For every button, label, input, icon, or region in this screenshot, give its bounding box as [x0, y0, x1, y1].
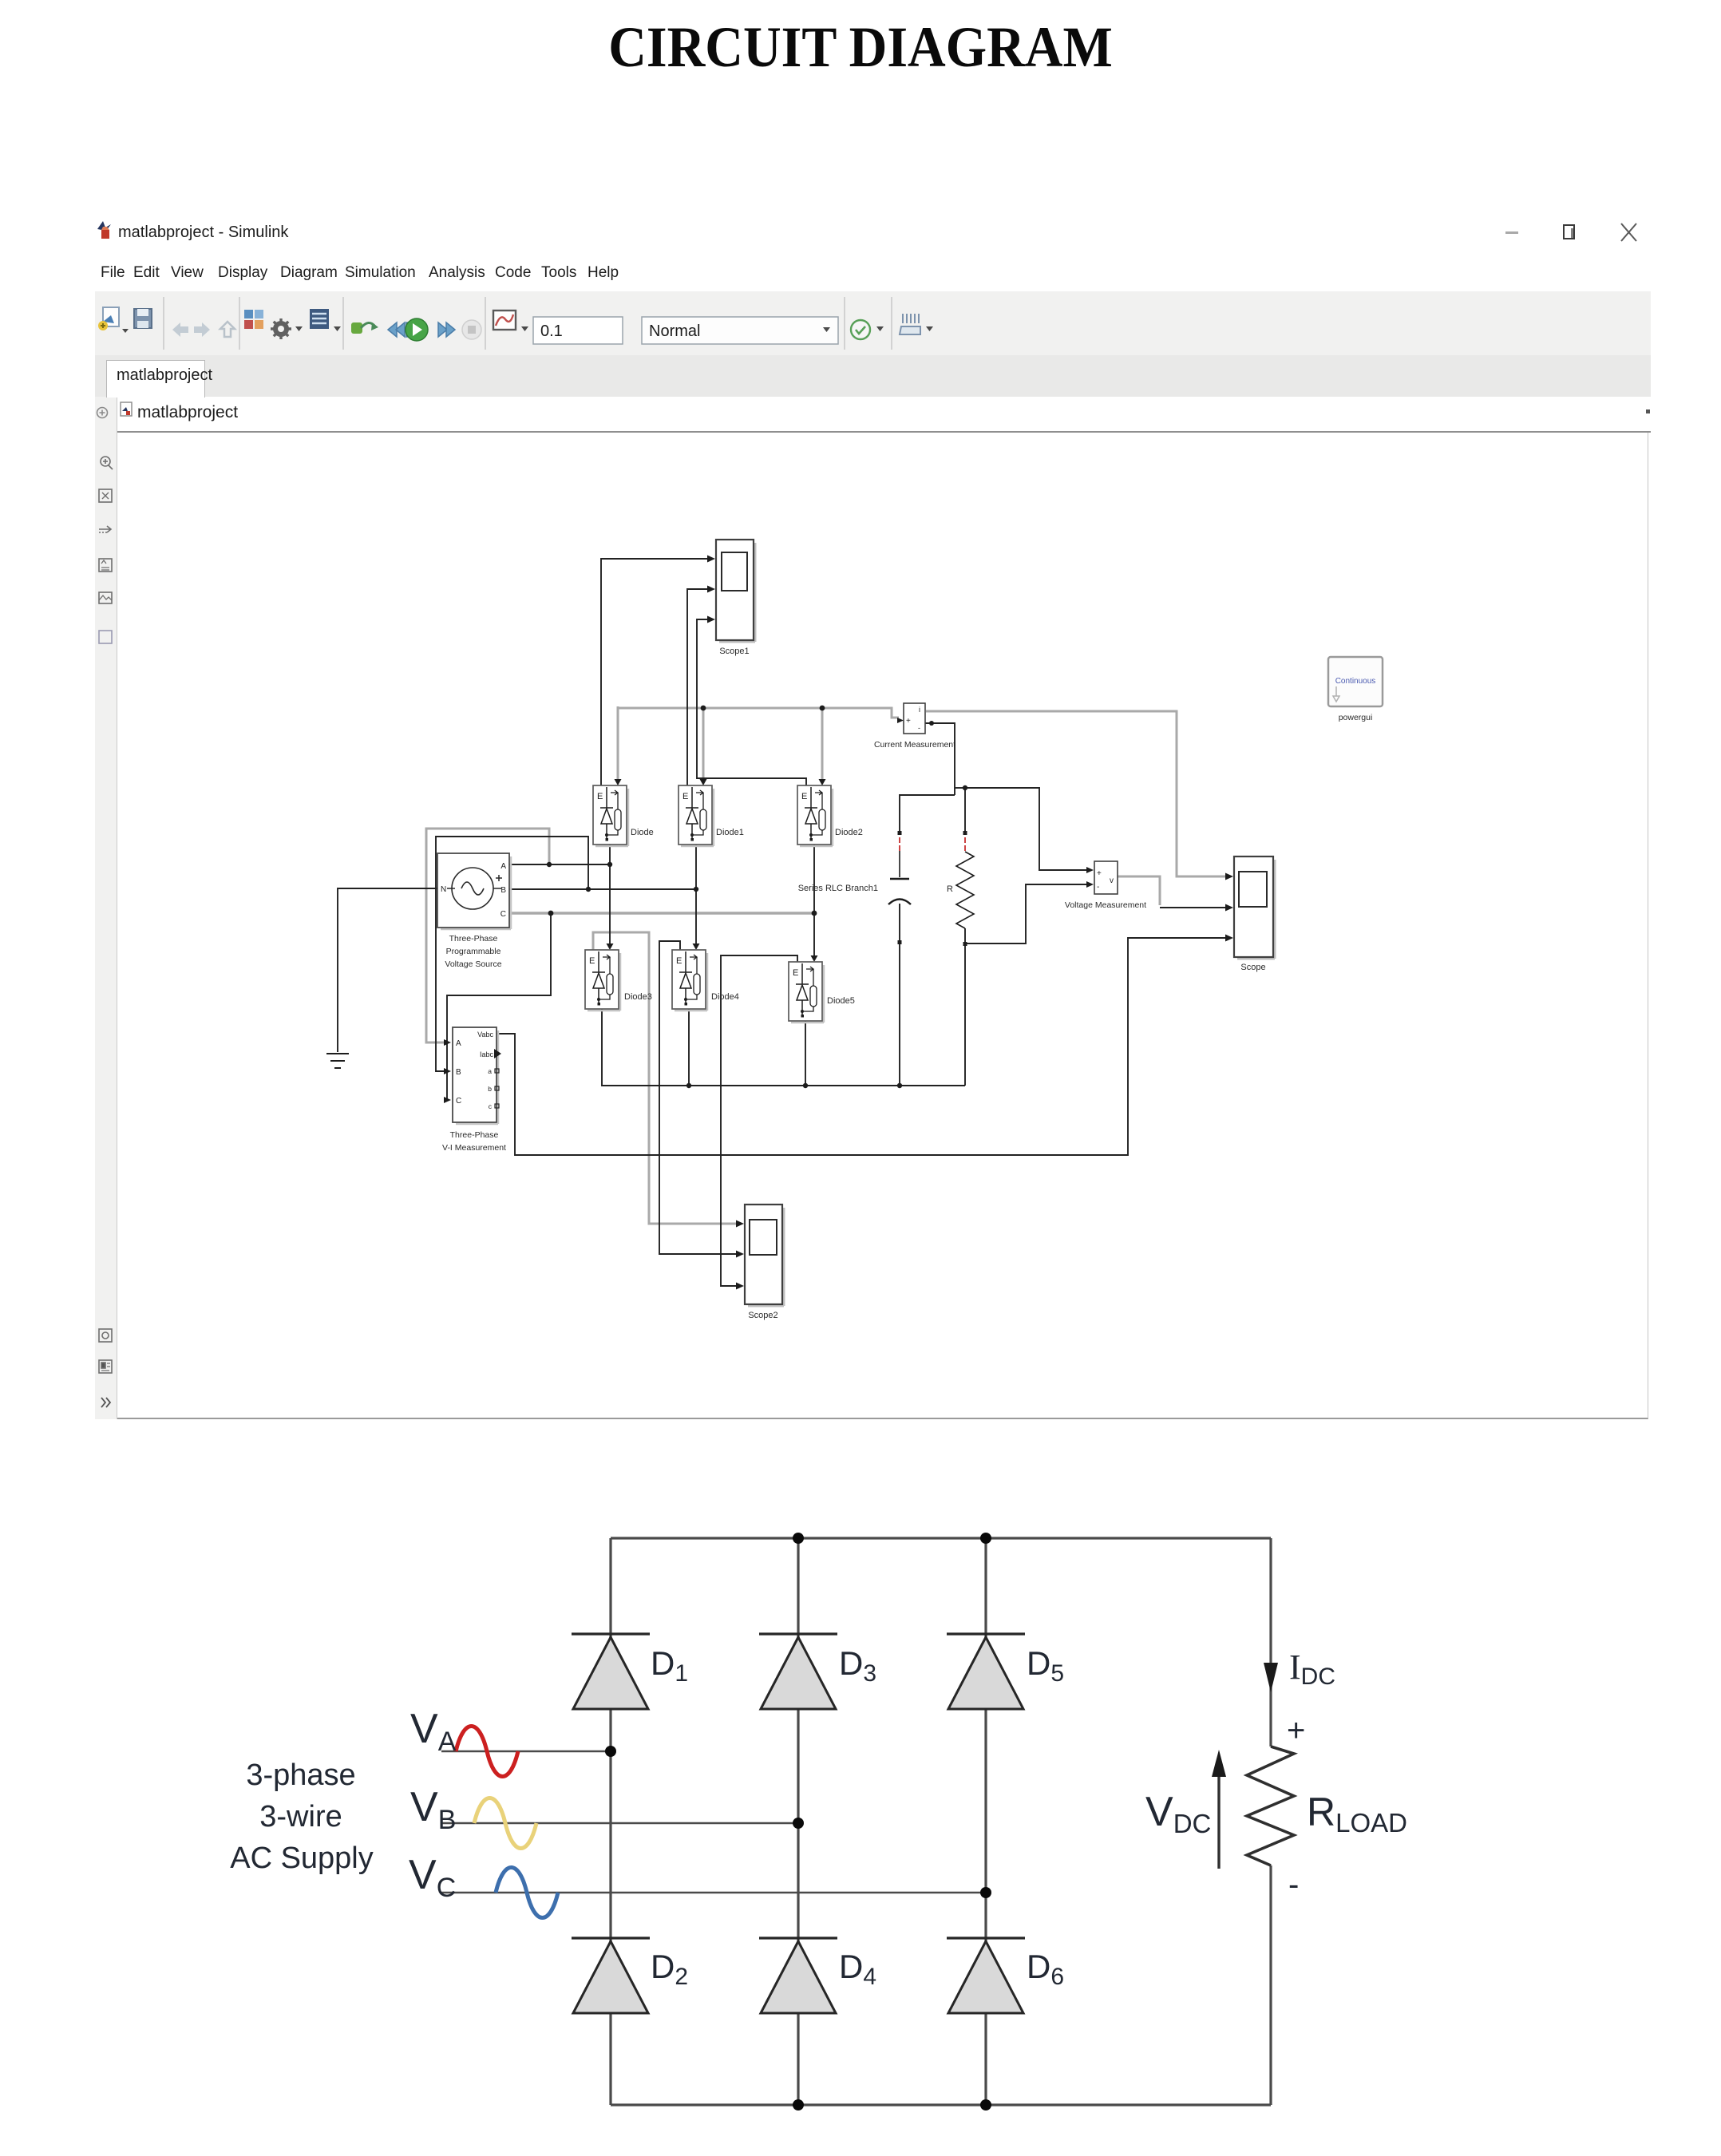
svg-text:D4: D4: [839, 1948, 876, 1990]
svg-text:Diode5: Diode5: [827, 996, 855, 1006]
svg-text:Vabc: Vabc: [477, 1031, 493, 1038]
svg-text:Diode2: Diode2: [835, 828, 863, 837]
svg-text:Diode: Diode: [631, 828, 654, 837]
svg-text:D1: D1: [651, 1644, 688, 1687]
svg-text:N: N: [441, 885, 446, 894]
svg-text:Diode1: Diode1: [716, 828, 744, 837]
svg-text:Series RLC Branch1: Series RLC Branch1: [798, 884, 878, 893]
svg-text:VB: VB: [410, 1784, 456, 1835]
svg-text:v: v: [1110, 876, 1114, 885]
svg-text:0.1: 0.1: [540, 322, 563, 340]
svg-text:AC Supply: AC Supply: [230, 1842, 374, 1875]
svg-text:D3: D3: [839, 1644, 876, 1687]
svg-text:RLOAD: RLOAD: [1307, 1790, 1407, 1838]
svg-text:3-phase: 3-phase: [246, 1758, 355, 1792]
svg-text:Current Measurement: Current Measurement: [874, 740, 955, 750]
svg-text:VC: VC: [409, 1852, 456, 1903]
svg-text:Iabc: Iabc: [480, 1050, 494, 1058]
svg-text:+: +: [906, 717, 911, 726]
svg-text:+: +: [1097, 869, 1102, 878]
svg-text:B: B: [456, 1068, 461, 1077]
svg-text:C: C: [500, 910, 506, 919]
svg-text:Diode4: Diode4: [711, 992, 739, 1002]
svg-text:A: A: [500, 862, 506, 871]
svg-text:-: -: [1097, 883, 1099, 892]
svg-text:D6: D6: [1027, 1948, 1064, 1990]
svg-text:D5: D5: [1027, 1644, 1064, 1687]
svg-text:Scope: Scope: [1240, 963, 1265, 972]
svg-text:a: a: [488, 1067, 492, 1075]
svg-text:Scope1: Scope1: [719, 647, 749, 656]
svg-text:Scope2: Scope2: [748, 1311, 777, 1320]
svg-text:Three-Phase: Three-Phase: [450, 1130, 499, 1140]
svg-text:D2: D2: [651, 1948, 688, 1990]
svg-text:Voltage Measurement: Voltage Measurement: [1065, 900, 1146, 910]
svg-text:C: C: [456, 1097, 461, 1106]
svg-text:A: A: [456, 1039, 461, 1048]
svg-text:b: b: [488, 1085, 492, 1093]
svg-text:-: -: [918, 724, 920, 732]
svg-text:VA: VA: [410, 1706, 457, 1757]
svg-text:V-I Measurement: V-I Measurement: [442, 1143, 506, 1153]
svg-text:powergui: powergui: [1339, 713, 1373, 722]
svg-text:R: R: [947, 884, 953, 894]
svg-text:B: B: [500, 886, 506, 895]
svg-text:Three-Phase: Three-Phase: [449, 934, 498, 943]
svg-text:3-wire: 3-wire: [259, 1800, 342, 1834]
svg-text:IDC: IDC: [1289, 1648, 1335, 1690]
svg-text:Normal: Normal: [649, 322, 700, 340]
svg-text:i: i: [919, 706, 920, 714]
svg-text:Programmable: Programmable: [446, 947, 501, 956]
svg-text:VDC: VDC: [1145, 1789, 1211, 1838]
svg-text:Continuous: Continuous: [1335, 677, 1376, 686]
svg-text:Diode3: Diode3: [624, 992, 652, 1002]
svg-text:+: +: [1287, 1713, 1305, 1748]
svg-text:-: -: [1288, 1867, 1299, 1902]
svg-text:Voltage Source: Voltage Source: [445, 959, 501, 969]
